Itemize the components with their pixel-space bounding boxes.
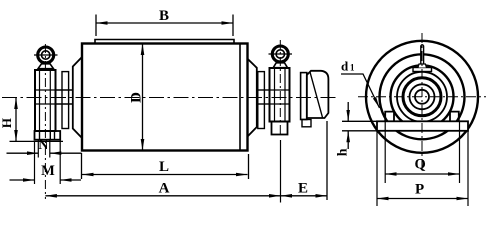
- base plate end view: [377, 121, 468, 131]
- bearing foot right: [272, 122, 288, 135]
- svg-text:1: 1: [350, 63, 355, 73]
- grease nipple right: [272, 46, 288, 62]
- svg-text:H: H: [0, 118, 14, 128]
- locking collar right: [258, 72, 265, 129]
- svg-text:d: d: [341, 59, 349, 74]
- svg-text:D: D: [129, 92, 145, 103]
- wire: shaft centerline left view: [2, 97, 336, 99]
- bearing block left: [35, 70, 56, 131]
- bolt centerline right bearing: [279, 40, 281, 137]
- dim Q extension lines: [384, 121, 386, 183]
- left hub: [73, 57, 82, 138]
- dim D: [142, 44, 144, 151]
- dim M arrows: [10, 179, 35, 181]
- dim P extension lines: [376, 131, 378, 206]
- dim N extension lines: [37, 140, 39, 158]
- right hub: [248, 59, 257, 137]
- svg-text:Q: Q: [415, 157, 426, 173]
- dim M extension lines: [34, 141, 36, 184]
- dim L: [82, 174, 248, 176]
- shaft lines right: [257, 89, 270, 91]
- svg-text:B: B: [159, 8, 169, 24]
- nipple stem front: [421, 45, 424, 64]
- dim Q: [385, 173, 459, 175]
- dim E extension line: [326, 121, 328, 200]
- bearing boss circle: [391, 65, 454, 128]
- svg-text:N: N: [38, 138, 48, 153]
- housing shoulder left: [385, 112, 394, 122]
- dim h extension lines: [342, 120, 378, 122]
- dim H: [15, 98, 17, 142]
- outer circle (drum): [366, 41, 478, 153]
- bearing circles: [397, 72, 447, 122]
- drum shell: [82, 44, 248, 151]
- grease nipple left: [38, 47, 54, 63]
- horizontal centerline end view: [358, 96, 486, 98]
- shaft end: [307, 71, 329, 120]
- bearing bore lines left: [39, 70, 41, 131]
- lagging strip on drum face: [95, 40, 234, 44]
- bolt centerline left bearing: [44, 44, 46, 199]
- bearing split lines right: [270, 89, 290, 91]
- svg-text:M: M: [41, 163, 55, 179]
- shaft step ring: [301, 73, 307, 120]
- svg-text:h: h: [336, 148, 351, 156]
- svg-text:P: P: [415, 182, 424, 198]
- dim B extension lines: [95, 15, 97, 37]
- locking collar left: [62, 72, 69, 129]
- shaft lines left: [56, 89, 73, 91]
- dim N arrows: [7, 152, 39, 154]
- end-disc weld line right: [239, 44, 241, 151]
- svg-text:E: E: [298, 181, 308, 197]
- nipple cap plate: [413, 68, 432, 72]
- bearing bore lines right: [274, 68, 276, 122]
- bearing base left: [35, 131, 61, 140]
- bearing block right: [270, 68, 290, 122]
- dim E: [281, 195, 328, 197]
- bearing split lines left: [35, 89, 56, 91]
- svg-text:L: L: [159, 159, 169, 175]
- ground line: [10, 140, 64, 142]
- dim L extension lines: [81, 153, 83, 179]
- vertical centerline end view: [421, 33, 423, 168]
- housing shoulder right: [450, 112, 459, 122]
- svg-text:A: A: [159, 181, 170, 197]
- dim B: [96, 22, 233, 24]
- dim P: [377, 198, 468, 200]
- base hatch lines: [39, 131, 41, 140]
- dim h arrows: [347, 102, 349, 121]
- shaft end flat line: [310, 72, 323, 118]
- d1 circle: [380, 54, 465, 139]
- key boss under ring: [302, 120, 311, 127]
- dim A: [45, 195, 280, 197]
